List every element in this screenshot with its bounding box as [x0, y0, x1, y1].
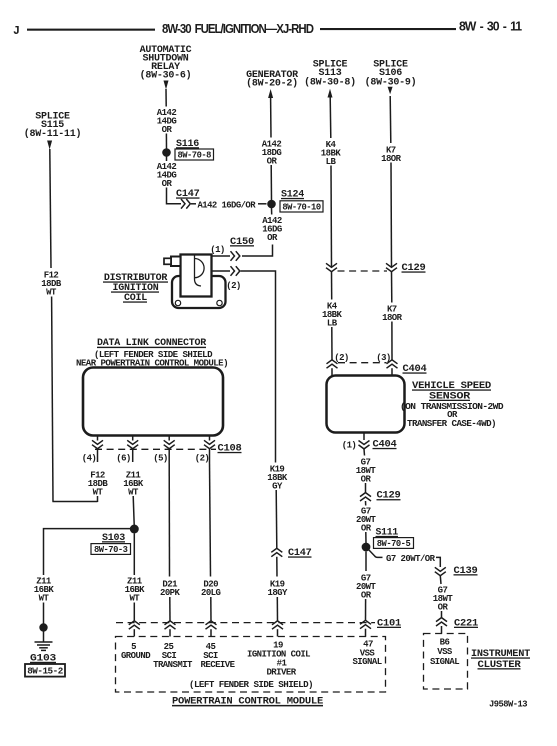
DLC pin 6 stub: [132, 436, 134, 441]
svg-text:OR: OR: [361, 474, 372, 484]
svg-text:OR: OR: [361, 523, 372, 533]
svg-text:TRANSMIT: TRANSMIT: [153, 660, 193, 670]
wire K7 to C404: [391, 322, 393, 360]
PCM pin 45 SCI RECEIVE label: [201, 642, 236, 670]
distributor ignition coil label: [103, 273, 168, 304]
wire coil pin 1: [212, 255, 230, 257]
wire D21 from DLC pin 5: [168, 462, 170, 577]
svg-text:OR: OR: [267, 156, 278, 166]
arrow to splice S113: [328, 89, 333, 98]
svg-text:A142 16DG/OR: A142 16DG/OR: [198, 200, 257, 210]
wire below S116: [166, 157, 168, 162]
arrow from relay: [164, 81, 169, 90]
svg-text:GROUND: GROUND: [121, 651, 151, 661]
connector C101 pin 5: [129, 621, 140, 629]
label C108: [218, 444, 242, 455]
connector C404 pin 1: [359, 441, 370, 449]
stub pin 45: [210, 629, 212, 636]
wire VSS pin 1: [363, 433, 365, 441]
svg-text:(8W-30-6): (8W-30-6): [140, 70, 192, 82]
label S111: [376, 528, 399, 539]
connector C150 pin 1: [231, 251, 240, 261]
svg-text:DRIVER: DRIVER: [266, 668, 296, 678]
PCM pin 47 VSS SIGNAL label: [352, 640, 381, 668]
stub pin 47: [365, 629, 367, 637]
connector C101 pin 25: [165, 621, 176, 629]
arrow from splice S115: [47, 141, 52, 150]
wire label F12 18DB WT (upper): [41, 271, 62, 298]
connector C221: [436, 618, 447, 626]
svg-text:8W-70-5: 8W-70-5: [377, 539, 411, 549]
svg-text:WT: WT: [46, 288, 57, 298]
dashed line C404: [338, 362, 387, 364]
branch wire to ground: [44, 529, 131, 575]
splice S116: [162, 148, 171, 157]
splice S103: [130, 525, 139, 534]
PCM pin 25 SCI TRANSMIT label: [153, 642, 193, 670]
svg-text:(8W-20-2): (8W-20-2): [246, 78, 298, 90]
wire K4 to C129: [330, 166, 333, 268]
svg-text:J958W-13: J958W-13: [489, 700, 527, 710]
powertrain control module dashed box: [116, 637, 386, 693]
stub pin 19: [277, 629, 279, 636]
wire into C221: [441, 611, 443, 617]
svg-text:18OR: 18OR: [381, 154, 402, 164]
DLC pin 6 lower stub: [132, 449, 134, 463]
label C139: [454, 566, 478, 577]
svg-text:TRANSFER CASE-4WD): TRANSFER CASE-4WD): [407, 419, 496, 429]
wire Z11 to ground junction: [43, 603, 45, 625]
coil tower inner line: [195, 255, 202, 286]
svg-text:(2): (2): [195, 454, 210, 464]
wire G7 below C404: [363, 449, 366, 456]
connector C129 G7: [360, 493, 371, 501]
svg-text:LB: LB: [327, 318, 338, 328]
wire F12 vertical to elbow: [52, 297, 53, 502]
svg-text:WT: WT: [129, 594, 140, 604]
label C101: [377, 618, 401, 629]
wire A142 from relay: [165, 89, 167, 107]
DLC pin 4 lower stub: [97, 449, 99, 463]
svg-text:OR: OR: [162, 125, 173, 135]
generator label: [246, 70, 298, 90]
connector C108 pin 2: [204, 440, 215, 448]
svg-text:J: J: [13, 25, 20, 38]
svg-text:(2): (2): [226, 281, 241, 291]
arrow from splice S106: [388, 87, 393, 95]
wire label G7 18WT OR (branch): [433, 586, 454, 613]
arrow to generator: [268, 89, 273, 98]
svg-text:20LG: 20LG: [201, 588, 221, 598]
label C129 lower: [377, 491, 401, 502]
svg-text:(5): (5): [153, 454, 168, 464]
wire label G7 20WT OR (lower): [356, 574, 377, 601]
wire elbow to C147: [167, 188, 182, 204]
instrument cluster dashed box: [424, 634, 468, 690]
wire label D20 20LG: [201, 580, 221, 599]
wire Z11 to S103: [133, 496, 134, 525]
wire K19 to C147: [275, 490, 278, 548]
connector C129 K4: [326, 263, 337, 271]
wire to splice S116: [165, 134, 167, 150]
stub pin 25: [169, 629, 171, 636]
label S116: [176, 139, 199, 150]
splice S124: [267, 200, 276, 209]
connector C108 pin 5: [164, 440, 175, 448]
stub into VSS box pin 3: [391, 368, 393, 375]
wire label Z11 16BK WT (lower): [125, 577, 146, 604]
coil screw right: [217, 300, 222, 305]
wire label Z11 16BK WT (ground branch): [34, 577, 55, 604]
svg-text:(6): (6): [116, 454, 131, 464]
wire D20 to C101: [210, 597, 212, 621]
reference box 8W-15-2: [25, 664, 65, 677]
wire label A142 16DG OR: [262, 216, 282, 243]
header rule right: [320, 28, 456, 30]
svg-text:8W - 30 - 11: 8W - 30 - 11: [459, 19, 522, 34]
wire D21 to C101: [169, 597, 171, 621]
data link connector box: [83, 368, 223, 436]
DLC pin 2 stub: [209, 436, 211, 441]
PCM pin 5 GROUND label: [121, 642, 151, 661]
reference box 8W-70-5: [374, 538, 414, 549]
wire F12 from S115: [50, 149, 51, 268]
splice S115 label: [24, 112, 82, 141]
svg-text:8W-15-2: 8W-15-2: [27, 666, 63, 677]
coil tower inner arc: [195, 259, 205, 278]
svg-text:(LEFT FENDER SIDE SHIELD): (LEFT FENDER SIDE SHIELD): [189, 680, 313, 690]
coil terminal inner: [171, 257, 181, 267]
svg-text:18OR: 18OR: [382, 313, 403, 323]
wire below S124: [271, 208, 273, 215]
coil screw left: [175, 300, 180, 305]
svg-text:8W-70-10: 8W-70-10: [282, 203, 320, 213]
wire G7 main below S111: [365, 551, 367, 571]
dashed line C108: [95, 448, 216, 450]
splice S111: [362, 543, 371, 552]
svg-text:GY: GY: [272, 482, 283, 492]
pin B6 VSS SIGNAL labels: [430, 638, 459, 667]
wire G7 below C139: [439, 576, 442, 584]
header rule left: [27, 29, 155, 31]
coil base: [172, 276, 226, 308]
branch wire G7 20WT/OR: [369, 550, 383, 558]
label C404 lower: [373, 440, 397, 451]
connector C150 pin 2: [231, 266, 240, 276]
wire G7 to C101: [365, 599, 367, 620]
label C147 lower: [288, 548, 312, 559]
splice S113 label: [304, 60, 356, 89]
wire K7 to C129: [390, 163, 393, 268]
wire label K7 18OR (lower): [382, 305, 403, 323]
wire K4 to C404: [331, 327, 333, 360]
wire label A142 14DG OR (lower): [157, 162, 177, 189]
label C129: [402, 263, 426, 274]
svg-text:OR: OR: [361, 590, 372, 600]
svg-text:(3): (3): [376, 353, 391, 363]
wire label K4 18BK LB (upper): [321, 140, 342, 167]
wire G7 below C129: [365, 501, 367, 506]
svg-text:WT: WT: [39, 594, 50, 604]
svg-text:G7 20WT/OR: G7 20WT/OR: [386, 554, 436, 564]
wire label K19 18BK GY: [267, 465, 288, 492]
wire label G7 20WT OR (upper): [356, 507, 377, 534]
connector C108 pin 6: [127, 440, 138, 448]
reference box 8W-70-8: [175, 149, 214, 161]
data link connector label: [76, 338, 228, 369]
connector C101 pin 47: [360, 620, 371, 628]
wire Z11 to C101: [133, 603, 135, 621]
wire into S111: [365, 532, 367, 543]
wire K4 below C129: [331, 272, 333, 300]
svg-text:(4): (4): [82, 454, 97, 464]
DLC pin 5 stub: [168, 436, 170, 441]
label C150: [230, 237, 254, 248]
connector C139: [435, 567, 446, 575]
splice S106 label: [365, 60, 417, 89]
wire label K7 18OR (upper): [381, 146, 402, 164]
svg-text:LB: LB: [326, 157, 337, 167]
svg-text:8W-30 FUEL/IGNITION—XJ-RHD: 8W-30 FUEL/IGNITION—XJ-RHD: [162, 21, 314, 36]
svg-text:8W-70-3: 8W-70-3: [94, 545, 128, 555]
connector C108 pin 4: [92, 440, 103, 448]
svg-text:(1): (1): [342, 441, 357, 451]
junction dot G103: [39, 623, 47, 631]
dashed line C101: [116, 622, 375, 624]
wire K7 below C129: [391, 272, 393, 303]
wire into ground symbol: [43, 631, 45, 642]
svg-text:(1): (1): [210, 245, 225, 255]
wire label A142 14DG OR (upper): [157, 108, 177, 135]
wire K4 upper: [329, 97, 332, 138]
label S103: [102, 533, 125, 544]
svg-text:VSS: VSS: [437, 647, 453, 657]
wire elbow down to C150 pin 1: [242, 245, 273, 257]
wire K19 from pin 2: [241, 271, 276, 463]
svg-text:OR: OR: [162, 179, 173, 189]
powertrain control module label: [172, 696, 323, 707]
stub into cluster: [441, 626, 443, 634]
svg-text:OR: OR: [267, 233, 278, 243]
reference box 8W-70-10: [280, 201, 323, 213]
svg-text:SIGNAL: SIGNAL: [352, 657, 381, 667]
wire label K19 18GY: [267, 580, 288, 599]
vehicle speed sensor label: [400, 381, 504, 429]
PCM pin 19 IGNITION COIL #1 DRIVER label: [247, 641, 310, 678]
svg-text:SIGNAL: SIGNAL: [430, 657, 459, 667]
wire F12 elbow horizontal: [52, 501, 97, 503]
connector C404 pin 2: [327, 360, 338, 368]
stub pin 5: [133, 629, 135, 636]
svg-text:B6: B6: [440, 638, 450, 648]
wire coil pin 2: [213, 270, 231, 272]
label C404 upper: [403, 364, 427, 375]
reference box 8W-70-3: [91, 544, 131, 555]
wire D20 from DLC pin 2: [210, 462, 211, 577]
stub into VSS box pin 2: [331, 368, 333, 375]
label S124: [281, 190, 304, 201]
wire label G7 18WT OR: [356, 458, 377, 485]
wire A142 16DG/OR label: [191, 200, 267, 210]
coil tower: [181, 255, 212, 297]
wire label D21 20PK: [160, 580, 181, 599]
DLC pin 2 lower stub: [209, 449, 211, 463]
connector C404 pin 3: [387, 360, 398, 368]
dashed line C129: [338, 270, 388, 272]
wire label A142 18DG OR: [262, 140, 282, 167]
wire K19 below C147: [276, 557, 278, 577]
instrument cluster label: [471, 649, 530, 671]
svg-text:20PK: 20PK: [160, 588, 181, 598]
wire K7 upper: [389, 96, 392, 143]
connector C101 pin 19: [272, 621, 283, 629]
wire label K4 18BK LB (lower): [322, 302, 343, 329]
vehicle speed sensor box: [327, 376, 405, 433]
label C147: [176, 189, 200, 200]
connector C101 pin 45: [206, 621, 217, 629]
coil terminal tip: [164, 258, 171, 264]
wire K19 to C101: [276, 597, 278, 621]
svg-text:8W-70-8: 8W-70-8: [177, 151, 211, 161]
DLC pin 5 lower stub: [168, 449, 170, 463]
svg-text:(2): (2): [334, 353, 349, 363]
wire into S124: [270, 165, 272, 200]
label G103: [30, 652, 56, 664]
connector C147 inline: [181, 199, 190, 209]
connector C147 K19: [271, 548, 282, 556]
connector C129 K7: [386, 263, 397, 271]
DLC pin 4 stub: [97, 436, 99, 441]
svg-text:(8W-11-11): (8W-11-11): [24, 128, 82, 140]
ground symbol G103: [35, 642, 53, 650]
branch elbow down: [436, 557, 440, 567]
label C221: [454, 618, 478, 629]
svg-text:OR: OR: [438, 602, 449, 612]
wire label Z11 16BK WT (upper): [123, 471, 144, 498]
wire Z11 below S103: [133, 534, 135, 576]
svg-text:(8W-30-9): (8W-30-9): [365, 77, 417, 89]
wire G7 to C129: [365, 483, 367, 492]
svg-text:18GY: 18GY: [267, 588, 288, 598]
svg-text:RECEIVE: RECEIVE: [201, 660, 236, 670]
wire F12 to elbow: [97, 496, 99, 502]
automatic shutdown relay label: [140, 45, 192, 82]
wire A142 to S124: [270, 98, 272, 138]
svg-text:(8W-30-8): (8W-30-8): [304, 77, 356, 89]
wire label F12 18DB WT (lower): [88, 471, 109, 498]
